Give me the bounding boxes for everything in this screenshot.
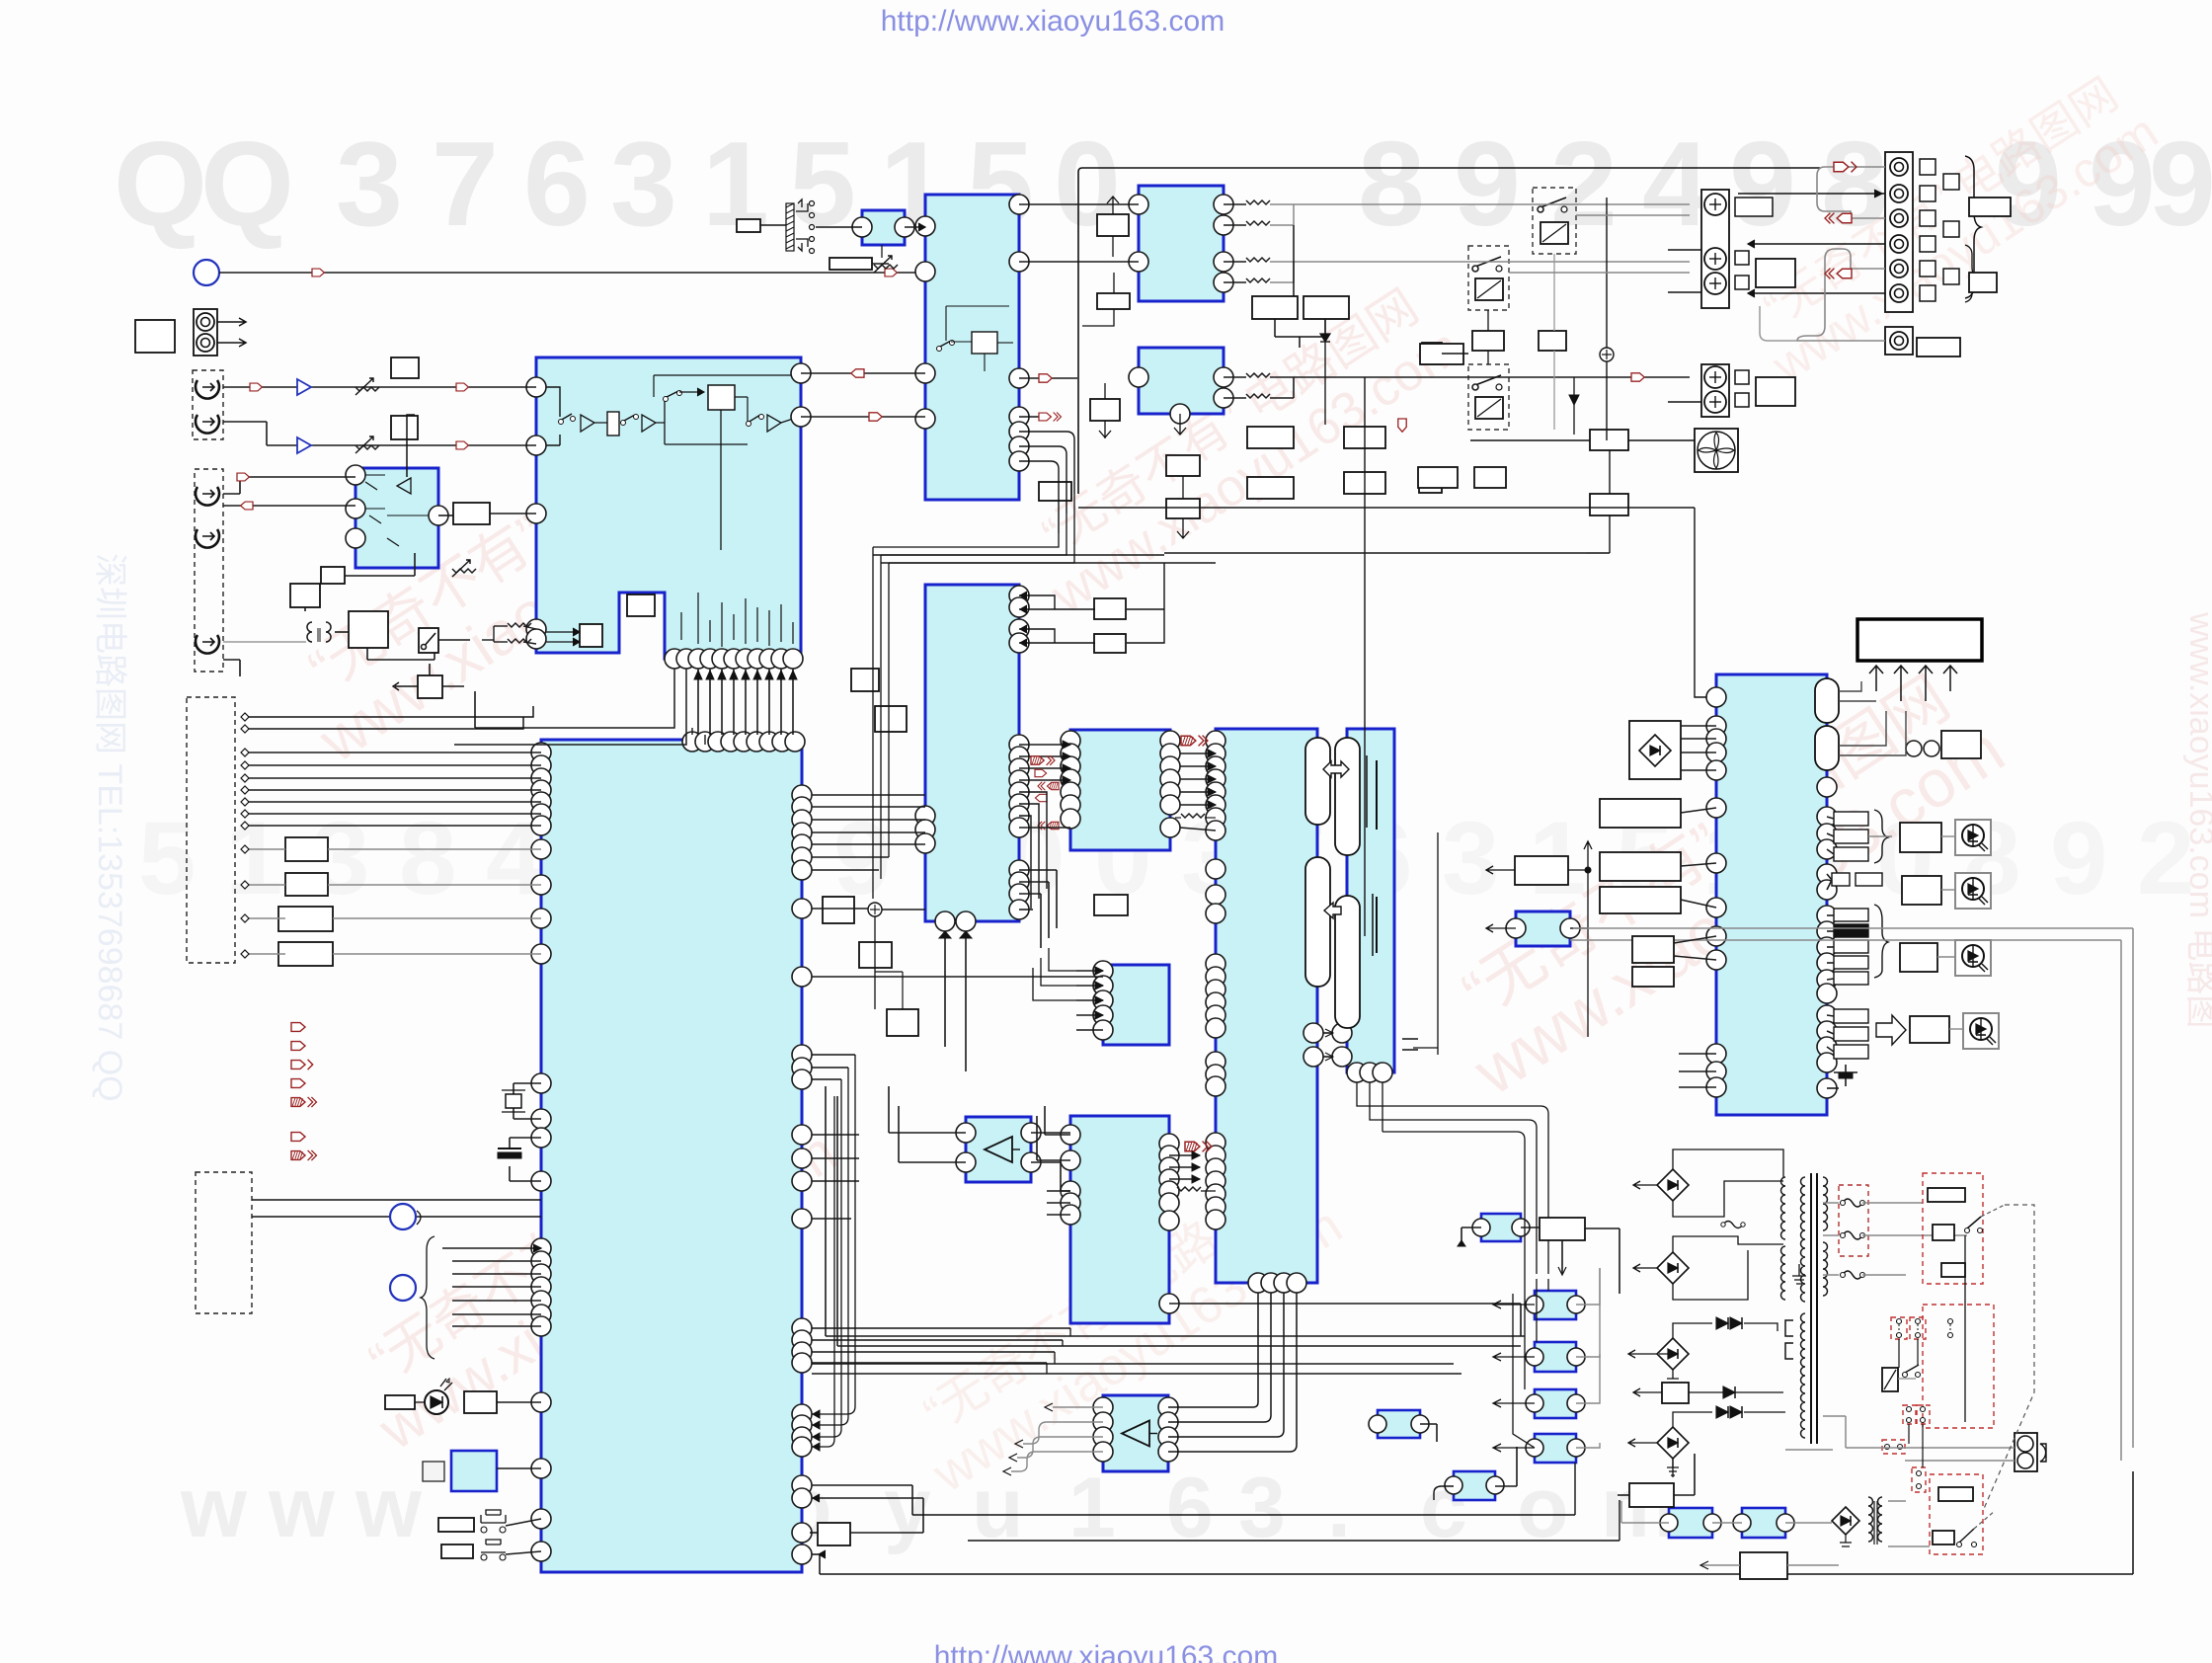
T601 secondary coil B bbox=[1823, 1242, 1828, 1296]
box U103 phono eq bbox=[349, 611, 388, 648]
red dashed voltage selector bbox=[1923, 1173, 1983, 1284]
blue circle mic1 bbox=[390, 1204, 416, 1229]
wire E 989 bbox=[812, 976, 1103, 978]
wire spk 272 bbox=[1851, 268, 1885, 270]
wire to fan bbox=[1470, 439, 1590, 441]
ground sym T601 bbox=[1792, 1264, 1806, 1284]
wire bottom verticals2 bbox=[1434, 1463, 1619, 1541]
diode D301 bbox=[1320, 334, 1330, 342]
wire AC lines bbox=[1846, 1447, 2014, 1449]
box R218 bbox=[887, 1009, 918, 1036]
wire H bottom drops bbox=[1357, 1082, 1382, 1132]
res U208 bbox=[1177, 1187, 1201, 1191]
label box right2 bbox=[1969, 273, 1997, 292]
wire A right 265 bbox=[1019, 261, 1139, 263]
wire xtalbox bbox=[497, 1467, 541, 1469]
svg-text:3: 3 bbox=[610, 117, 677, 251]
wire mid verticals2 bbox=[873, 494, 1074, 563]
svg-text:5: 5 bbox=[789, 117, 856, 251]
box R104 bbox=[321, 567, 345, 584]
wire G bottom to amp2 bbox=[1168, 1293, 1297, 1452]
regulator IC606 bbox=[1454, 1471, 1495, 1500]
switch block contents bbox=[1891, 1317, 1907, 1339]
IC U302 power amp driver 2 bbox=[1139, 348, 1224, 414]
U202 pins bbox=[915, 216, 935, 236]
box near relay2 bbox=[1472, 331, 1504, 351]
IC U201 input selector small bbox=[862, 210, 905, 245]
box near relay5 bbox=[1474, 467, 1506, 488]
wire spk bus bbox=[1817, 167, 1851, 218]
bridge BR604 bbox=[1657, 1427, 1689, 1459]
wire F to G bus bbox=[1180, 752, 1216, 754]
box J left4 bbox=[1632, 936, 1674, 963]
wire left conn top2 bbox=[245, 706, 533, 729]
cap H bottom bbox=[1402, 1038, 1418, 1040]
wire L out 403 bbox=[1224, 397, 1246, 399]
wire sec to fuses bbox=[1823, 1202, 1839, 1204]
wire B right lower bbox=[1019, 792, 1047, 909]
wire relay2 to term bbox=[1509, 272, 1690, 274]
optical connector bbox=[194, 309, 217, 356]
svg-text:9: 9 bbox=[1729, 117, 1796, 251]
varres1 bbox=[355, 378, 379, 395]
box R216 bbox=[851, 669, 879, 691]
LED resistor stack C bbox=[1834, 909, 1868, 921]
wire J right leds bbox=[1827, 817, 1834, 819]
red dashed switch block bbox=[1923, 1305, 1994, 1428]
wire C bottom bundle bbox=[697, 669, 699, 735]
res pair to U101 bbox=[508, 623, 531, 627]
dashed jack group 2 bbox=[195, 469, 223, 672]
svg-text:http://www.xiaoyu163.com: http://www.xiaoyu163.com bbox=[881, 5, 1225, 38]
wire b4 link bbox=[1082, 273, 1114, 326]
arrow in1 bbox=[250, 383, 262, 391]
bus lines inside U206 bbox=[1366, 755, 1368, 828]
wire pot to M bbox=[816, 226, 862, 228]
wire long bus 1363b bbox=[837, 1345, 1521, 1347]
wire relay col bbox=[1487, 310, 1489, 331]
resistor box R306 bbox=[1166, 499, 1200, 518]
wire Jleft3 bbox=[1681, 900, 1716, 908]
varcap below M bbox=[874, 256, 898, 273]
bus capsule P5 bbox=[1815, 678, 1839, 723]
rca jack J5 bbox=[196, 635, 219, 654]
brace LED A bbox=[1874, 810, 1888, 863]
fan sub box bbox=[1590, 494, 1628, 515]
wire bridgeJ to J bbox=[1681, 725, 1716, 727]
IC U204 audio interface bbox=[1070, 730, 1170, 850]
wire b7b8 links bbox=[1174, 414, 1189, 538]
wire box23 bbox=[429, 664, 431, 675]
filter box L305 bbox=[1344, 427, 1385, 448]
wire relay feeds bbox=[1293, 225, 1295, 296]
plus junction bbox=[1600, 348, 1614, 361]
wire term leads bbox=[1668, 249, 1701, 251]
op-amp U209 pins bbox=[956, 1123, 976, 1143]
wire b3 link2 bbox=[1107, 197, 1119, 257]
box inside U101 bbox=[580, 624, 602, 647]
wire C out to A bbox=[801, 372, 925, 374]
wire BR601 bbox=[1633, 1149, 1783, 1217]
bus capsule P3 bbox=[1335, 738, 1360, 855]
wire mid vertical 1606 bbox=[1606, 198, 1608, 348]
LED driver box C bbox=[1900, 943, 1937, 972]
resistor box R304 bbox=[1039, 482, 1071, 501]
arrow L out bbox=[1631, 373, 1644, 381]
arrow col BF 2 bbox=[1035, 769, 1047, 776]
U501 left pins bbox=[1706, 687, 1726, 707]
arrow FG hatch bbox=[1181, 736, 1208, 747]
T601 sub coil marks bbox=[1785, 1320, 1793, 1359]
relay RY1 dashed bbox=[1533, 188, 1576, 254]
wire E cluster3 bbox=[812, 1055, 855, 1079]
box R212 bbox=[1094, 634, 1126, 653]
wire D out bbox=[438, 515, 453, 516]
wire spk 247 bbox=[1748, 243, 1885, 245]
svg-text:3: 3 bbox=[1442, 801, 1499, 916]
IC U102 switch block bbox=[355, 468, 438, 568]
arrow ant1 bbox=[312, 269, 324, 277]
wire E 1574 bbox=[812, 1553, 820, 1555]
box 1650 area bbox=[1629, 1483, 1674, 1507]
arrow spk2 bbox=[1825, 213, 1852, 224]
wire U208 left feeds2 bbox=[1047, 1190, 1070, 1192]
wire M to U202 bbox=[905, 226, 925, 228]
arrow spk1 bbox=[1834, 162, 1856, 173]
filter box L301 bbox=[1252, 296, 1298, 319]
varres2 bbox=[355, 436, 379, 453]
wire LED chains bbox=[1868, 835, 1892, 837]
wire E 1519 bbox=[967, 1540, 969, 1542]
IC U401 system microcontroller bbox=[541, 740, 802, 1572]
LED driver box D bbox=[1910, 1016, 1949, 1043]
wire long bus 1353 bbox=[826, 1335, 1525, 1337]
terminal label box3 bbox=[1756, 259, 1795, 287]
terminal label box6 bbox=[1756, 377, 1795, 406]
U301 pins bbox=[1129, 195, 1148, 214]
wire spk 169 bbox=[1841, 166, 1885, 168]
wire Jleft1 bbox=[1681, 808, 1716, 813]
wire spk 221 bbox=[1851, 217, 1885, 219]
input circle ANT bbox=[194, 260, 219, 285]
IC U301 power amp driver (top right) bbox=[1139, 186, 1224, 301]
dashed connector CN102 bbox=[187, 697, 235, 963]
wire top right drop bbox=[1760, 306, 1797, 341]
rca jack J2 bbox=[196, 415, 219, 434]
relay RY3 dashed bbox=[1468, 364, 1509, 430]
op-amp U209 bbox=[966, 1117, 1031, 1182]
box after T101 bbox=[335, 631, 349, 633]
box left of xtal bbox=[423, 1462, 444, 1481]
diodes D612 bbox=[1716, 1406, 1728, 1418]
box R105 bbox=[290, 584, 320, 607]
wire U208 right internal bbox=[1169, 1154, 1200, 1156]
cap C402 bbox=[510, 1137, 541, 1139]
regulator IC602 bbox=[1535, 1342, 1576, 1372]
U202 interior circuit bbox=[938, 341, 951, 348]
regulator IC604 bbox=[1535, 1434, 1576, 1463]
wire box R211 up bbox=[1164, 552, 1586, 554]
LED D401 bbox=[425, 1390, 448, 1414]
svg-text:www.xiaoyu163.com 电路图: www.xiaoyu163.com 电路图 bbox=[2182, 611, 2212, 1028]
arrow in4 bbox=[241, 502, 253, 510]
dashed connector CN103 bbox=[196, 1172, 252, 1313]
svg-text:8: 8 bbox=[399, 801, 456, 916]
regulator IC608 bbox=[1742, 1508, 1785, 1538]
wire B top boxes bbox=[1019, 595, 1095, 643]
U401 right pins bbox=[792, 785, 812, 805]
wire fanbox down bbox=[1609, 515, 1611, 553]
wire T602 out2 bbox=[1888, 1500, 1906, 1502]
wire U503 area bbox=[1486, 866, 1515, 874]
red dashed bottom block bbox=[1930, 1474, 1983, 1554]
relay RY601 bbox=[1882, 1368, 1898, 1391]
arrow A out bbox=[1039, 374, 1052, 382]
transformer T101 bbox=[307, 622, 312, 642]
IC U503 small interface box bbox=[1516, 911, 1570, 946]
LED DA bbox=[1955, 820, 1991, 855]
terminal label sq1 bbox=[1735, 198, 1773, 216]
wire J top feed bbox=[1695, 508, 1706, 697]
wire amp1 out bbox=[1031, 1132, 1070, 1134]
U302 pins bbox=[1129, 367, 1148, 387]
plus node near B bbox=[868, 903, 882, 916]
output terminal block T1 bbox=[1701, 190, 1729, 308]
box J left2 bbox=[1600, 852, 1681, 881]
box R214 bbox=[859, 942, 892, 968]
wire U207 left bbox=[1076, 970, 1103, 972]
terminal sq2 bbox=[1735, 251, 1749, 265]
crystal oscillator module X401 bbox=[451, 1451, 497, 1491]
display feed arrows bbox=[1869, 666, 1883, 691]
wire opto col feeds2 bbox=[1513, 1279, 1548, 1448]
box R106 bbox=[418, 675, 442, 698]
wire E 1504 bbox=[812, 1484, 912, 1486]
wire U103 links bbox=[304, 607, 306, 611]
svg-text:1: 1 bbox=[225, 801, 282, 916]
box near relay4 bbox=[1418, 467, 1458, 488]
arrow A cluster bbox=[1039, 413, 1062, 422]
U401 internal stubs bbox=[705, 752, 782, 810]
wire BR602 bbox=[1633, 1236, 1783, 1300]
svg-text:w: w bbox=[180, 1461, 248, 1555]
button SW402 bbox=[441, 1544, 473, 1558]
LED resistor stack B bbox=[1832, 873, 1850, 886]
switch SW101 bbox=[419, 628, 438, 653]
wire J 1043 bbox=[1679, 1053, 1716, 1055]
regulator IC601 bbox=[1535, 1291, 1576, 1319]
fuse F602 bbox=[1843, 1271, 1862, 1279]
box above U503 bbox=[1515, 856, 1568, 885]
box under opto bottom bbox=[1740, 1552, 1787, 1579]
arrow col BF 4 bbox=[1035, 794, 1047, 801]
LED resistor stack D bbox=[1834, 1009, 1868, 1023]
wire in1 bbox=[223, 386, 536, 388]
wire in3 bbox=[223, 493, 240, 495]
wire BR604 bbox=[1628, 1412, 1785, 1477]
wire box opto1 bbox=[1585, 1227, 1619, 1229]
wire in4 bbox=[223, 505, 355, 507]
wire led in bbox=[497, 1401, 541, 1403]
IC U101 tuner/front-end block bbox=[536, 357, 801, 659]
svg-text:8: 8 bbox=[1358, 117, 1425, 251]
U204 pins bbox=[1061, 731, 1080, 751]
arrow col BF 1 bbox=[1031, 755, 1055, 765]
rca jack J4 bbox=[196, 529, 219, 548]
wire U207 sources bbox=[1033, 948, 1076, 1000]
arrowheads BF bbox=[1063, 741, 1070, 749]
resistor box R307 bbox=[1422, 343, 1442, 364]
wire K out 286 bbox=[1224, 281, 1246, 283]
box R103 bbox=[453, 503, 490, 524]
box R211 bbox=[1094, 598, 1126, 619]
resistor box R301 bbox=[1097, 214, 1129, 236]
U101 pins bbox=[526, 377, 546, 397]
transformer T601 core bbox=[1810, 1173, 1812, 1444]
relay RY2 dashed bbox=[1468, 246, 1509, 310]
svg-text:6: 6 bbox=[523, 117, 591, 251]
opto-coupler PC601 bbox=[1481, 1214, 1521, 1241]
label box right1 bbox=[1969, 198, 2011, 216]
svg-text:深圳电路图网 TEL:13537698687 QQ: 深圳电路图网 TEL:13537698687 QQ bbox=[91, 553, 128, 1102]
selector switch bbox=[1967, 1217, 1981, 1228]
wire Jleft2 bbox=[1681, 863, 1716, 866]
arrow in3 bbox=[237, 473, 249, 481]
buffer tri2 bbox=[297, 437, 311, 453]
small dashed conn bbox=[1882, 1440, 1905, 1454]
wire A cluster out bbox=[1019, 417, 1074, 533]
output terminal block T2 bbox=[1701, 364, 1729, 417]
terminal squares col2 bbox=[1943, 174, 1959, 190]
wire E 920 bbox=[812, 908, 868, 910]
wire left boxes bbox=[245, 848, 285, 850]
cap box C101 bbox=[391, 357, 419, 378]
box near relay3 bbox=[1539, 331, 1566, 351]
IC U207 upper sub-block bbox=[1103, 965, 1169, 1045]
fan motor M601 bbox=[1695, 429, 1738, 472]
regulator IC603 bbox=[1535, 1389, 1576, 1418]
blue circle mic2 bbox=[390, 1275, 416, 1301]
switch pair dashed bbox=[1903, 1405, 1916, 1424]
diodes D611 bbox=[1716, 1317, 1728, 1329]
arrow col BF 5 bbox=[1038, 822, 1059, 830]
small dashed conn2 bbox=[1912, 1467, 1926, 1492]
big arrow D bbox=[1876, 1015, 1906, 1045]
wire E right bus1 bbox=[812, 794, 925, 796]
svg-text:9: 9 bbox=[2050, 801, 2107, 916]
wire capsule to display bbox=[1839, 681, 1906, 755]
brace mic bbox=[421, 1236, 434, 1359]
filter box L303 bbox=[1247, 427, 1294, 448]
resistor box R302 bbox=[1097, 293, 1130, 309]
wire box1650 bbox=[1618, 1494, 1629, 1496]
wire long bus 1381 bbox=[812, 1363, 1454, 1365]
wire E 1552 bbox=[810, 1532, 818, 1534]
wire bottom long lines bbox=[820, 1471, 2133, 1574]
rca jack J1 bbox=[196, 380, 219, 399]
bus capsule P1 bbox=[1305, 738, 1330, 825]
svg-text:http://www.xiaoyu163.com: http://www.xiaoyu163.com bbox=[934, 1640, 1279, 1663]
wire Jleft4b bbox=[1674, 936, 1716, 943]
wire long bus 1391 bbox=[812, 1373, 1461, 1375]
U401 left pins bbox=[531, 743, 551, 762]
wire spk 196 bbox=[1738, 193, 1885, 195]
wire C tab down bbox=[474, 691, 476, 728]
op-amp U210 pins bbox=[1093, 1397, 1113, 1417]
power jack box bbox=[135, 320, 175, 353]
res FG bbox=[1181, 814, 1205, 818]
wire D feedback bbox=[407, 415, 415, 477]
arrow ant2 bbox=[885, 269, 897, 277]
legend arrows bbox=[291, 1023, 305, 1032]
terminal squares col1 bbox=[1920, 159, 1935, 175]
bus capsule P2 bbox=[1305, 857, 1330, 987]
selector boxes bbox=[1928, 1188, 1965, 1202]
wire b2 to U202 bbox=[872, 263, 889, 265]
rca jack J3 bbox=[196, 487, 219, 506]
resistor box R303 bbox=[1090, 399, 1120, 421]
brace right2 bbox=[1965, 245, 1978, 302]
box diode filter bbox=[1662, 1383, 1689, 1403]
svg-text:4: 4 bbox=[1642, 117, 1709, 251]
AC inlet bbox=[2014, 1433, 2037, 1471]
wire spk 345 bbox=[1797, 340, 1885, 342]
box R215 bbox=[823, 897, 854, 923]
resistor box R201 bbox=[737, 219, 760, 232]
dashed jack group 1 bbox=[193, 370, 223, 439]
wire E right mid bbox=[812, 1134, 859, 1136]
box J left3 bbox=[1600, 887, 1681, 913]
U401 top pins bbox=[682, 732, 702, 752]
wire power long gray2 bbox=[1573, 927, 2133, 929]
svg-text:Q: Q bbox=[200, 117, 294, 251]
filter box L302 bbox=[1303, 296, 1349, 319]
box R113 bbox=[278, 942, 333, 966]
arrow in1b bbox=[456, 383, 468, 391]
wire in2 bbox=[223, 421, 267, 423]
box R112 bbox=[278, 907, 333, 931]
cap C501 bbox=[1834, 1071, 1857, 1073]
speaker terminal strip CN601 bbox=[1885, 152, 1913, 312]
U208 pins bbox=[1061, 1125, 1080, 1145]
terminal CN602 bbox=[1885, 327, 1913, 355]
resistor box R308 bbox=[1419, 471, 1442, 493]
wire K out 207 bbox=[1224, 203, 1246, 205]
wire J 1102 bbox=[1827, 1087, 1839, 1089]
crystal X402 bbox=[513, 1082, 541, 1084]
regulator IC607 bbox=[1669, 1508, 1712, 1538]
arrow col BF 3 bbox=[1038, 782, 1059, 790]
filter box L306 bbox=[1344, 472, 1385, 494]
wire mic bundle bbox=[442, 1247, 541, 1249]
IC U202 top-center signal processor bbox=[925, 195, 1019, 500]
box R217 bbox=[875, 706, 907, 732]
wire spk 297 bbox=[1748, 292, 1885, 294]
IC U208 lower sub-block bbox=[1070, 1116, 1169, 1323]
wire A right 207 bbox=[1019, 203, 1139, 205]
wire opto1 link bbox=[1461, 1227, 1481, 1228]
wire box R212 link bbox=[873, 554, 1164, 556]
wire opto row links bbox=[1420, 1423, 1437, 1425]
wire BR603 bbox=[1628, 1323, 1777, 1358]
svg-text:w: w bbox=[355, 1461, 423, 1555]
LED driver box B bbox=[1902, 876, 1941, 905]
wire in5 gray bbox=[223, 641, 306, 643]
U205 left pins bbox=[1206, 731, 1225, 751]
svg-text:7: 7 bbox=[432, 117, 499, 251]
LED resistor stack A bbox=[1834, 812, 1868, 826]
power jack arrows bbox=[217, 318, 246, 326]
